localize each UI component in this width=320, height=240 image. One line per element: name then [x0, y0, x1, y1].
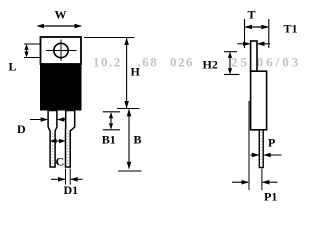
svg-text:B: B	[134, 132, 142, 146]
svg-text:L: L	[9, 60, 17, 74]
svg-text:H2: H2	[203, 58, 218, 72]
svg-text:P1: P1	[264, 190, 277, 204]
svg-text:.68: .68	[138, 55, 159, 70]
svg-text:T1: T1	[284, 22, 298, 36]
svg-text:W: W	[55, 8, 67, 22]
svg-text:D: D	[17, 122, 26, 136]
svg-text:C: C	[56, 155, 65, 169]
svg-text:026: 026	[170, 55, 194, 70]
svg-text:B1: B1	[102, 132, 116, 146]
svg-text:D1: D1	[64, 183, 79, 197]
svg-text:10.2: 10.2	[93, 55, 122, 70]
svg-text:T: T	[248, 8, 256, 22]
svg-text:25/06/03: 25/06/03	[231, 55, 301, 70]
svg-text:H: H	[131, 65, 141, 79]
svg-text:P: P	[268, 136, 275, 150]
